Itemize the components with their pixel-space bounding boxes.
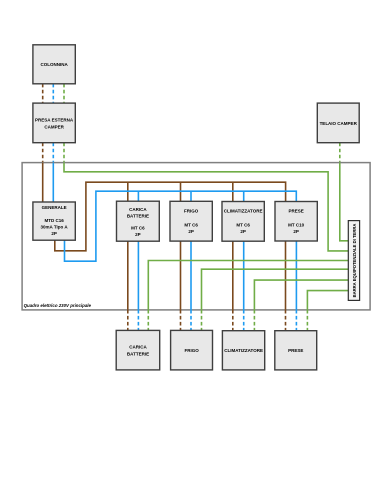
wire brown dashed quadro to PRESE load [285, 310, 287, 331]
wire green earth to PRESE load [307, 291, 348, 310]
wire green dashed quadro to FRIGO load [201, 310, 203, 331]
load box PRESE [275, 331, 317, 370]
svg-text:PRESE: PRESE [288, 348, 303, 353]
load box CARICA BATTERIE [116, 330, 160, 370]
breaker CLIMATIZZATORE MT C6 2P [222, 202, 264, 242]
box TELAIO CAMPER [317, 103, 359, 143]
svg-text:2P: 2P [188, 229, 194, 234]
wire green earth from telaio to terra bar [340, 163, 349, 241]
wire brown CLIMATIZZATORE breaker output [232, 241, 234, 310]
svg-text:CARICA: CARICA [129, 345, 147, 350]
wire brown FRIGO breaker output [180, 241, 182, 310]
wire blue CLIMATIZZATORE breaker output [243, 241, 245, 310]
breaker FRIGO MT C6 2P [170, 201, 212, 241]
breaker PRESE MT C10 2P [275, 202, 317, 242]
svg-text:CARICA: CARICA [129, 207, 147, 212]
wire blue CARICA BATTERIE breaker output [137, 241, 139, 310]
box COLONNINA [33, 45, 75, 84]
load box CLIMATIZZATORE [222, 331, 264, 370]
wire brown dashed quadro to CARICA BATTERIE load [127, 310, 129, 331]
svg-text:2P: 2P [293, 229, 299, 234]
wire blue bus from GENERALE output [65, 191, 297, 261]
wire green dashed PRESA ESTERNA to quadro [63, 143, 65, 163]
svg-text:MT C6: MT C6 [131, 226, 145, 231]
svg-text:Quadro elettrico 230V principa: Quadro elettrico 230V principale [24, 303, 92, 308]
svg-text:PRESE: PRESE [288, 208, 303, 213]
wire blue drop to FRIGO breaker [190, 191, 192, 201]
svg-text:BATTERIE: BATTERIE [127, 214, 149, 219]
box PRESA ESTERNA CAMPER [33, 103, 75, 143]
breaker GENERALE MTD C16 30mA Tipo A 2P [33, 202, 75, 240]
wire brown line in quadro to GENERALE [42, 163, 44, 202]
enclosure quadro elettrico 230V principale [22, 163, 370, 310]
wire brown CARICA BATTERIE breaker output [127, 241, 129, 310]
wire brown bus from GENERALE output [55, 182, 286, 251]
wire brown drop to CARICA BATTERIE breaker [127, 182, 129, 201]
wire brown dashed PRESA ESTERNA to quadro [42, 143, 44, 163]
wire brown dashed quadro to CLIMATIZZATORE load [232, 310, 234, 331]
svg-text:CAMPER: CAMPER [44, 124, 64, 129]
svg-text:MT C6: MT C6 [184, 222, 198, 227]
wire blue dashed COLONNINA to PRESA ESTERNA [52, 84, 54, 103]
svg-text:30mA Tipo A: 30mA Tipo A [41, 224, 69, 229]
svg-text:GENERALE: GENERALE [42, 205, 67, 210]
wire green dashed quadro to CARICA BATTERIE load [147, 310, 149, 331]
svg-text:BARRA EQUIPOTENZIALE DI TERRA: BARRA EQUIPOTENZIALE DI TERRA [352, 224, 357, 298]
wire blue PRESE breaker output [295, 241, 297, 310]
wire blue dashed quadro to FRIGO load [190, 310, 192, 331]
wire green dashed quadro to PRESE load [306, 310, 308, 331]
svg-text:2P: 2P [51, 231, 57, 236]
wire blue neutral in quadro to GENERALE [52, 163, 54, 202]
wire brown drop to FRIGO breaker [180, 182, 182, 201]
wire brown PRESE breaker output [285, 241, 287, 310]
svg-text:FRIGO: FRIGO [184, 348, 199, 353]
svg-text:CLIMATIZZATORE: CLIMATIZZATORE [224, 348, 263, 353]
wire green earth from presa to terra bar [64, 163, 348, 251]
wire blue drop to CLIMATIZZATORE breaker [243, 191, 245, 201]
svg-text:FRIGO: FRIGO [184, 208, 199, 213]
svg-text:MT C10: MT C10 [288, 222, 305, 227]
load box FRIGO [171, 330, 213, 370]
svg-text:BATTERIE: BATTERIE [127, 351, 149, 356]
wire green earth to CLIMATIZZATORE load [254, 280, 348, 310]
wire green dashed COLONNINA to PRESA ESTERNA [63, 84, 65, 103]
wire brown drop to CLIMATIZZATORE breaker [232, 182, 234, 201]
breaker CARICA BATTERIE MT C6 2P [117, 201, 160, 241]
wire blue drop to CARICA BATTERIE breaker [137, 191, 139, 201]
svg-text:MTD C16: MTD C16 [44, 218, 64, 223]
wire green dashed quadro to CLIMATIZZATORE load [253, 310, 255, 331]
wire blue dashed quadro to PRESE load [295, 310, 297, 331]
bar BARRA EQUIPOTENZIALE DI TERRA [348, 221, 359, 301]
svg-text:CLIMATIZZATORE: CLIMATIZZATORE [224, 208, 263, 213]
svg-text:MT C6: MT C6 [236, 222, 250, 227]
wire brown dashed COLONNINA to PRESA ESTERNA [42, 84, 44, 103]
wire blue dashed PRESA ESTERNA to quadro [52, 143, 54, 163]
svg-text:TELAIO CAMPER: TELAIO CAMPER [320, 121, 358, 126]
wire blue dashed quadro to CLIMATIZZATORE load [243, 310, 245, 331]
wire blue FRIGO breaker output [190, 241, 192, 310]
wire green dashed TELAIO CAMPER to quadro [339, 143, 341, 163]
svg-text:PRESA ESTERNA: PRESA ESTERNA [35, 118, 74, 123]
svg-text:2P: 2P [135, 232, 141, 237]
wire brown dashed quadro to FRIGO load [180, 310, 182, 331]
svg-text:2P: 2P [240, 229, 246, 234]
svg-text:COLONNINA: COLONNINA [40, 62, 68, 67]
wire green earth to CARICA BATTERIE load [148, 261, 348, 310]
wire blue dashed quadro to CARICA BATTERIE load [137, 310, 139, 331]
wire green earth to FRIGO load [202, 269, 349, 310]
